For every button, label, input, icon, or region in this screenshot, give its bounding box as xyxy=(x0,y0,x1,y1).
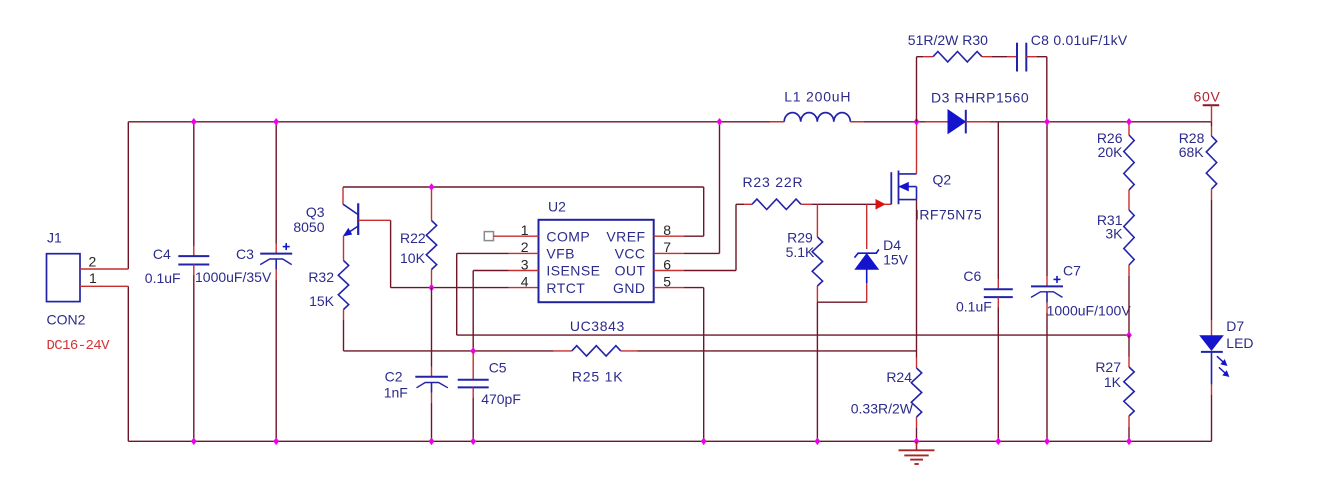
wire gate row to Q2 xyxy=(812,203,876,205)
pin U2 VFB xyxy=(509,252,539,254)
pin R28 top xyxy=(1211,126,1213,136)
svg-text:Q3: Q3 xyxy=(306,204,325,220)
svg-text:U2: U2 xyxy=(548,199,566,215)
no-connect square on pin 1 xyxy=(484,232,493,241)
pin U2 OUT xyxy=(654,270,684,272)
wire R29/D4 bottom link xyxy=(817,301,866,303)
transistor Q3 collector diagonal xyxy=(343,204,358,214)
pin C2 top xyxy=(431,367,433,377)
wire snubber right riser xyxy=(1046,57,1048,122)
transistor Q2 drain stub xyxy=(899,173,917,175)
svg-text:C4: C4 xyxy=(153,246,171,262)
svg-text:C3: C3 xyxy=(236,246,254,262)
svg-text:C5: C5 xyxy=(489,360,507,376)
pin Q2 gate xyxy=(885,203,892,205)
junction dot drain/snubber on top bus xyxy=(914,118,920,126)
pin 1 of J1 xyxy=(80,285,128,287)
svg-text:GND: GND xyxy=(613,280,645,296)
junction dot GND pin5 on bottom bus xyxy=(701,438,707,446)
junction dot VCC on top bus xyxy=(717,118,723,126)
pin R22 top xyxy=(431,187,433,221)
wire VREF rail y187 xyxy=(343,186,704,188)
transistor Q3 emitter diagonal xyxy=(344,226,358,236)
pin U2 VCC xyxy=(654,252,684,254)
svg-text:R24: R24 xyxy=(886,369,912,385)
capacitor C6 xyxy=(984,288,1013,290)
junction dot C2 bottom xyxy=(429,438,435,446)
resistor R30 xyxy=(933,52,982,62)
pin D4 cathode (from gate row) xyxy=(866,204,868,249)
wire C2 bottom column xyxy=(431,403,433,441)
wire R29 column down to bus xyxy=(816,302,818,441)
svg-text:ISENSE: ISENSE xyxy=(546,263,600,279)
pin C4 top xyxy=(193,246,195,256)
svg-text:0.1uF: 0.1uF xyxy=(956,299,992,315)
pin D3 cathode xyxy=(966,121,990,123)
junction dot C7 top xyxy=(1044,118,1050,126)
wire feedback node to R27 xyxy=(1128,335,1130,356)
svg-text:10K: 10K xyxy=(400,250,426,266)
wire C7 top column xyxy=(1046,122,1048,276)
wire top bus D3-cathode to output corner xyxy=(966,121,1212,123)
junction dot C3 top xyxy=(273,118,279,126)
pin C6 bottom xyxy=(997,297,999,307)
wire R29 top stub xyxy=(816,215,818,237)
net label 60V tick xyxy=(1203,104,1220,106)
wire VFB left segment xyxy=(457,252,509,254)
pin R27 bottom xyxy=(1128,416,1130,427)
pin U2 COMP xyxy=(494,235,539,237)
pin L1 left xyxy=(770,121,784,123)
diode D3 cathode bar xyxy=(965,110,967,134)
wire snubber top left stub xyxy=(917,56,924,58)
resistor R32 xyxy=(338,261,348,310)
wire RTCT row xyxy=(391,287,509,289)
pin C2 bottom xyxy=(431,393,433,404)
wire R23 riser xyxy=(735,204,737,270)
LED D7 emission arrow 1 xyxy=(1217,356,1225,363)
junction dot C4 top xyxy=(191,118,197,126)
svg-text:VREF: VREF xyxy=(606,228,645,244)
junction dot R26 top on bus xyxy=(1126,118,1132,126)
junction dot R24 on bottom bus xyxy=(914,438,920,446)
svg-text:D7: D7 xyxy=(1226,318,1244,334)
svg-text:15K: 15K xyxy=(309,293,335,309)
svg-text:RTCT: RTCT xyxy=(546,280,585,296)
pin R29 top xyxy=(816,204,818,215)
wire R26-R31 link xyxy=(1128,190,1130,210)
pin R27 top xyxy=(1128,357,1130,368)
pin U2 RTCT xyxy=(509,287,539,289)
svg-text:8050: 8050 xyxy=(293,219,324,235)
svg-text:0.1uF: 0.1uF xyxy=(145,270,181,286)
junction dot R29 column on bus xyxy=(815,438,821,446)
pin R23 right xyxy=(801,203,812,205)
LED D7 lead below xyxy=(1211,352,1213,385)
wire C6 bottom column xyxy=(997,308,999,442)
wire R32 bottom to sense row xyxy=(343,320,345,351)
svg-text:COMP: COMP xyxy=(546,228,590,244)
connector J1 box xyxy=(47,254,81,302)
pin Q3 collector xyxy=(342,187,344,204)
junction dot R22 top on VREF rail xyxy=(429,183,435,191)
transistor Q2 channel bar xyxy=(898,171,900,205)
svg-text:60V: 60V xyxy=(1194,89,1221,105)
inductor L1 xyxy=(784,113,850,122)
wire C7 bottom column xyxy=(1046,313,1048,441)
pin U2 ISENSE xyxy=(509,270,539,272)
pin 60V tick to bus xyxy=(1211,105,1213,122)
zener D4 cathode bar xyxy=(855,249,879,257)
junction dot C5 bottom xyxy=(470,438,476,446)
resistor R27 xyxy=(1124,367,1134,416)
wire LED to bottom bus xyxy=(1211,395,1213,441)
wire VREF to riser xyxy=(684,235,704,237)
wire VFB feedback row xyxy=(457,334,1129,336)
capacitor C3 (electrolytic) xyxy=(260,253,292,255)
wire left input vertical lower (J1 pin1 to bottom bus) xyxy=(127,286,129,441)
svg-text:1000uF/35V: 1000uF/35V xyxy=(195,269,272,285)
pin C3 bottom xyxy=(275,270,277,280)
svg-text:L1 200uH: L1 200uH xyxy=(784,89,851,105)
svg-text:68K: 68K xyxy=(1179,144,1205,160)
resistor R22 xyxy=(426,221,436,270)
zener D4 triangle xyxy=(855,254,878,269)
pin R24 top xyxy=(916,358,918,369)
wire C3 top column xyxy=(275,122,277,244)
transistor Q2 gate bar xyxy=(890,172,892,204)
svg-text:R22: R22 xyxy=(400,230,426,246)
pin L1 right xyxy=(850,121,864,123)
pin R22 bottom xyxy=(431,270,433,288)
wire VCC to riser xyxy=(684,252,720,254)
pin C5 top xyxy=(472,351,474,380)
svg-text:C2: C2 xyxy=(385,369,403,385)
pin C7 top xyxy=(1046,276,1048,286)
svg-text:OUT: OUT xyxy=(615,263,646,279)
wire C3 bottom column xyxy=(275,280,277,441)
LED D7 triangle xyxy=(1200,336,1223,351)
pin Q3 base xyxy=(358,219,390,221)
wire C5 bottom column xyxy=(472,398,474,441)
resistor R25 xyxy=(572,346,621,356)
resistor R23 xyxy=(752,199,801,209)
svg-text:DC16-24V: DC16-24V xyxy=(47,338,111,354)
pin C5 bottom xyxy=(472,387,474,398)
capacitor C5 xyxy=(458,379,489,381)
pin R24 bottom xyxy=(916,417,918,428)
svg-text:2: 2 xyxy=(89,254,97,270)
zener D4 anode lead xyxy=(866,269,868,283)
pin R28 bottom xyxy=(1211,189,1213,200)
op-amp U2 UC3843 box xyxy=(539,220,654,302)
wire bottom ground bus xyxy=(128,440,1211,442)
wire sense row right (R25 to Q2 source) xyxy=(638,350,917,352)
wire C4 bottom column xyxy=(193,275,195,441)
junction dot C6 bottom xyxy=(995,438,1001,446)
pin C8 left xyxy=(1007,56,1017,58)
wire R28 to LED xyxy=(1211,200,1213,320)
pin 2 of J1 xyxy=(80,268,128,270)
svg-text:IRF75N75: IRF75N75 xyxy=(915,207,982,223)
svg-text:LED: LED xyxy=(1226,335,1253,351)
diode D3 triangle xyxy=(948,110,965,133)
svg-text:J1: J1 xyxy=(47,230,62,246)
junction dot feedback node xyxy=(1126,331,1132,339)
svg-text:15V: 15V xyxy=(883,252,909,268)
pin C7 bottom xyxy=(1046,302,1048,313)
wire top bus L1-to-drain segment xyxy=(850,121,948,123)
resistor R28 xyxy=(1206,136,1216,189)
transistor Q2 source-substrate vertical xyxy=(916,187,918,200)
svg-text:R32: R32 xyxy=(308,269,334,285)
pin C4 bottom xyxy=(193,265,195,276)
svg-text:C8 0.01uF/1kV: C8 0.01uF/1kV xyxy=(1031,32,1128,48)
pin R25 right xyxy=(621,350,638,352)
capacitor C7 (electrolytic) xyxy=(1031,285,1063,287)
transistor Q2 source stub xyxy=(899,199,917,201)
junction dot C7 bottom xyxy=(1044,438,1050,446)
svg-text:C7: C7 xyxy=(1063,263,1081,279)
wire VREF rail right drop to pin 8 xyxy=(703,187,705,236)
junction dot C5/ISENSE on sense row xyxy=(470,347,476,355)
wire left input vertical upper (J1 pin2 to top bus) xyxy=(127,122,129,269)
gate drive arrow xyxy=(876,200,885,209)
svg-text:R23 22R: R23 22R xyxy=(743,174,804,190)
resistor R29 xyxy=(812,237,822,286)
svg-text:C6: C6 xyxy=(963,268,981,284)
wire Q2 source down xyxy=(916,200,918,358)
wire C4 top column xyxy=(193,122,195,246)
pin R23 left xyxy=(744,203,752,205)
transistor Q2 substrate arrowhead xyxy=(900,183,909,191)
resistor R26 xyxy=(1124,135,1134,190)
svg-text:Q2: Q2 xyxy=(933,172,952,188)
pin R30 left xyxy=(923,56,933,58)
wire R30 to C8 xyxy=(992,56,1007,58)
pin D7 anode xyxy=(1211,320,1213,336)
capacitor C8 xyxy=(1016,43,1018,72)
pin U2 VREF xyxy=(654,235,684,237)
svg-text:D3 RHRP1560: D3 RHRP1560 xyxy=(931,90,1029,106)
wire OUT to R23 riser xyxy=(684,270,736,272)
svg-text:5.1K: 5.1K xyxy=(786,244,815,260)
pin U2 GND xyxy=(654,287,684,289)
pin R26 top xyxy=(1128,122,1130,135)
wire sense row left (R32 to R25) xyxy=(344,350,554,352)
pin D3 anode xyxy=(925,121,948,123)
capacitor C2 (polarized style) xyxy=(415,376,448,378)
wire Q3 base down to RTCT row xyxy=(390,220,392,287)
transistor Q3 base bar xyxy=(357,203,359,235)
wire top input bus left segment xyxy=(128,121,784,123)
pin R31 bottom xyxy=(1128,265,1130,276)
pin R25 left xyxy=(554,350,572,352)
wire ISENSE vertical down xyxy=(472,271,474,351)
pin D7 cathode xyxy=(1211,384,1213,395)
svg-text:R25 1K: R25 1K xyxy=(572,369,624,385)
pin C6 top xyxy=(997,279,999,289)
svg-text:UC3843: UC3843 xyxy=(570,318,625,334)
wire gate row left stub xyxy=(736,203,744,205)
wire C2 top column xyxy=(431,288,433,367)
svg-text:VCC: VCC xyxy=(615,246,646,262)
pin C3 top xyxy=(275,244,277,254)
svg-text:0.33R/2W: 0.33R/2W xyxy=(851,401,914,417)
ground xyxy=(916,441,918,450)
wire snubber left riser xyxy=(916,57,918,122)
svg-text:3K: 3K xyxy=(1105,226,1123,242)
svg-text:R27: R27 xyxy=(1095,359,1121,375)
junction dot R27 bottom on bus xyxy=(1126,438,1132,446)
wire C8 to right riser xyxy=(1036,56,1047,58)
pin R29 bottom xyxy=(816,286,818,302)
resistor R31 xyxy=(1124,210,1134,265)
pin Q3 emitter / R32 top wire xyxy=(343,236,345,261)
wire R24 to bottom bus xyxy=(916,428,918,441)
wire ISENSE left segment xyxy=(473,270,508,272)
wire output corner down xyxy=(1211,122,1213,126)
pin R32 bottom xyxy=(343,310,345,321)
pin R30 right xyxy=(982,56,992,58)
svg-text:1: 1 xyxy=(89,270,97,286)
svg-text:CON2: CON2 xyxy=(47,312,86,328)
svg-text:20K: 20K xyxy=(1098,144,1124,160)
pin C8 right xyxy=(1026,56,1036,58)
transistor Q3 emitter arrow xyxy=(344,229,352,236)
wire R27 bottom to bus xyxy=(1128,427,1130,441)
transistor Q2 substrate arrow line xyxy=(899,186,917,188)
svg-text:1K: 1K xyxy=(1104,374,1122,390)
wire GND pin5 drop to bottom bus xyxy=(703,288,705,442)
svg-text:1000uF/100V: 1000uF/100V xyxy=(1047,303,1132,319)
capacitor C4 xyxy=(178,255,209,257)
svg-text:51R/2W R30: 51R/2W R30 xyxy=(908,32,988,48)
LED D7 cathode bar xyxy=(1201,351,1223,353)
pin Q2 drain up to top bus xyxy=(916,122,918,174)
resistor R24 xyxy=(911,368,921,417)
svg-text:4: 4 xyxy=(521,274,529,290)
svg-text:1nF: 1nF xyxy=(384,385,408,401)
pin D4 anode xyxy=(866,283,868,302)
wire VFB vertical down xyxy=(456,253,458,335)
junction dot C4 bottom xyxy=(191,438,197,446)
svg-text:470pF: 470pF xyxy=(481,391,521,407)
LED D7 emission arrow 2 xyxy=(1219,367,1227,374)
junction dot C3 bottom xyxy=(273,438,279,446)
wire C6 top column xyxy=(997,122,999,279)
wire VCC riser to top bus xyxy=(719,122,721,254)
junction dot RTCT/R22/C2 xyxy=(429,284,435,292)
svg-text:VFB: VFB xyxy=(546,246,575,262)
wire R31 bottom to feedback node xyxy=(1128,276,1130,335)
wire GND to drop xyxy=(684,287,704,289)
